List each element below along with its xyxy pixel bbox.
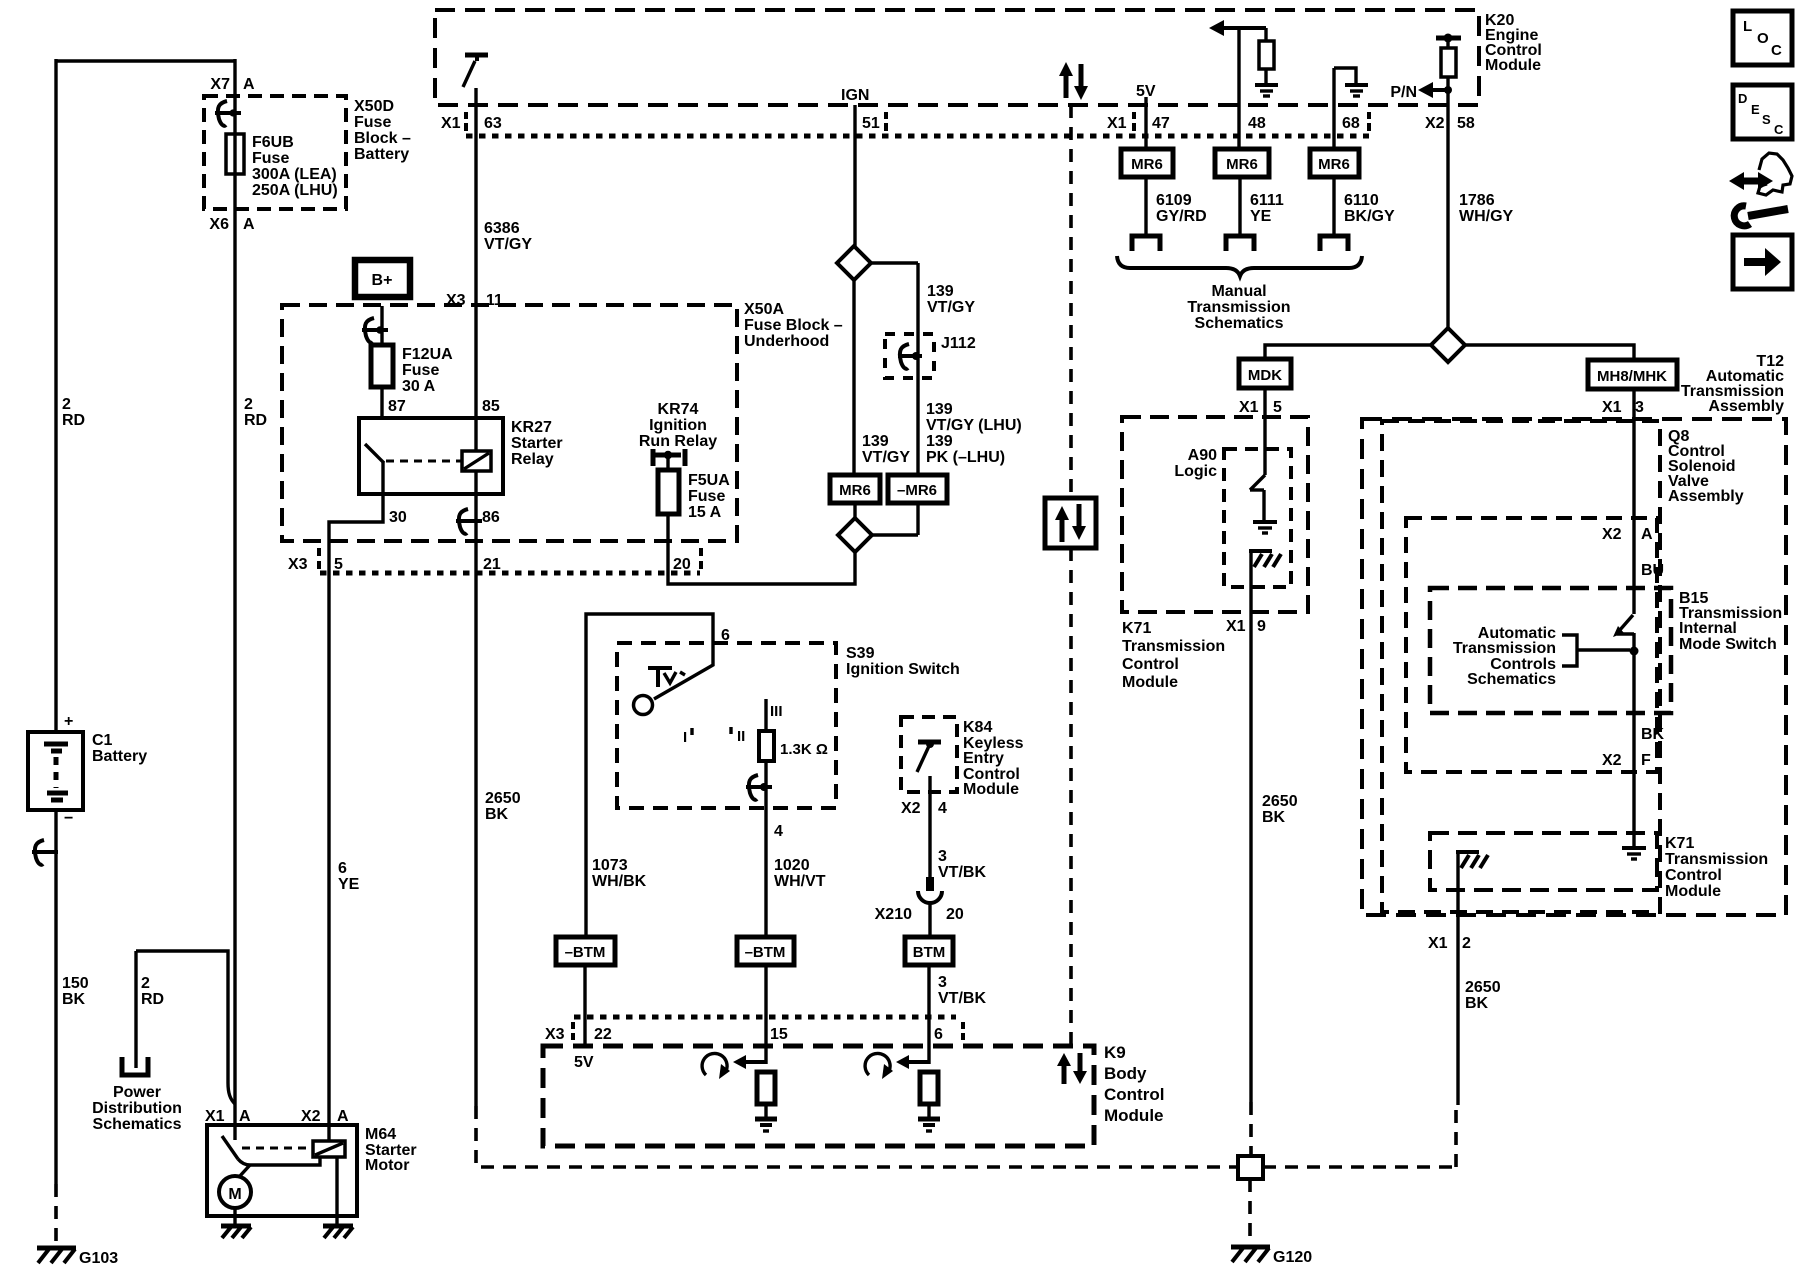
ground below motor bbox=[221, 1226, 251, 1238]
svg-text:Ignition: Ignition bbox=[649, 417, 707, 434]
svg-text:O: O bbox=[1757, 30, 1769, 47]
wire B15 to ground bbox=[1630, 633, 1639, 847]
node X6 A bbox=[209, 216, 255, 233]
svg-text:–BTM: –BTM bbox=[745, 944, 786, 961]
wire solenoid to ground bbox=[335, 1157, 338, 1224]
svg-text:Control: Control bbox=[1122, 656, 1179, 673]
wire 2 RD branch to power distribution bbox=[136, 951, 235, 1104]
switch B15 transmission internal mode switch box bbox=[1430, 588, 1782, 713]
wire F12UA to relay pin 87 bbox=[380, 386, 383, 418]
svg-text:Fuse Block –: Fuse Block – bbox=[744, 317, 843, 334]
svg-text:E: E bbox=[1751, 102, 1760, 117]
assembly Q8 control solenoid valve box bbox=[1382, 421, 1744, 912]
inner connector box X2 bbox=[1406, 518, 1657, 772]
wire 139 VT/GY left branch bbox=[852, 280, 855, 475]
svg-text:A90: A90 bbox=[1188, 447, 1217, 464]
B+ terminal box bbox=[355, 260, 410, 297]
ground inside A90 bbox=[1253, 522, 1277, 533]
dashed ground path right of splice bbox=[1263, 1105, 1456, 1167]
svg-text:Underhood: Underhood bbox=[744, 333, 829, 350]
terminal box -BTM middle bbox=[737, 937, 794, 965]
connector X3 row of X50A bbox=[288, 548, 701, 573]
node X1 5 of MDK bbox=[1239, 399, 1282, 416]
data link arrows box bbox=[1045, 498, 1096, 548]
svg-text:VT/GY: VT/GY bbox=[862, 449, 910, 466]
dashed actuator link in M64 bbox=[242, 1147, 313, 1150]
svg-text:Entry: Entry bbox=[963, 750, 1004, 767]
svg-text:VT/BK: VT/BK bbox=[938, 990, 986, 1007]
wire 150 BK dashed continuation to G103 bbox=[54, 1184, 58, 1246]
label power distribution schematics bbox=[92, 1084, 182, 1133]
terminal box -MR6 bbox=[888, 475, 947, 503]
node 68 bbox=[1342, 112, 1369, 132]
clip in X50D bbox=[215, 101, 241, 126]
svg-text:J112: J112 bbox=[941, 335, 976, 352]
svg-text:48: 48 bbox=[1248, 115, 1266, 132]
dashed wire 2650 BK to splice square bbox=[1249, 1102, 1253, 1156]
svg-text:–MR6: –MR6 bbox=[897, 482, 937, 499]
svg-text:X1: X1 bbox=[205, 1108, 225, 1125]
svg-text:M: M bbox=[228, 1186, 241, 1203]
svg-text:5: 5 bbox=[1273, 399, 1282, 416]
wire label 2650 BK left bbox=[485, 790, 521, 823]
module K9 body control module box bbox=[543, 1043, 1164, 1146]
svg-text:Module: Module bbox=[1665, 883, 1721, 900]
splice junction square at G120 bbox=[1238, 1156, 1263, 1179]
clip under 1.3K resistor bbox=[746, 775, 772, 800]
svg-text:MR6: MR6 bbox=[1131, 156, 1163, 173]
node X2 58 bbox=[1425, 115, 1475, 132]
svg-text:1786: 1786 bbox=[1459, 192, 1495, 209]
connector stub power distribution bbox=[122, 1057, 148, 1075]
svg-text:X2: X2 bbox=[301, 1108, 321, 1125]
svg-text:58: 58 bbox=[1457, 115, 1475, 132]
ground and resistor inside K20 at pin 68 bbox=[1334, 68, 1368, 96]
switch lever B15 bbox=[1613, 615, 1634, 637]
svg-text:Assembly: Assembly bbox=[1668, 488, 1744, 505]
svg-text:X1: X1 bbox=[1226, 618, 1246, 635]
terminal box MR6 bbox=[830, 475, 880, 503]
svg-text:K71: K71 bbox=[1122, 620, 1151, 637]
module K20 engine control module box bbox=[435, 10, 1542, 105]
node X1 2 bbox=[1428, 935, 1471, 952]
module K84 keyless entry control module box bbox=[901, 717, 1024, 798]
relay KR27 box bbox=[359, 418, 563, 494]
svg-text:139: 139 bbox=[927, 283, 954, 300]
svg-text:139: 139 bbox=[926, 401, 953, 418]
relay KR27 dashed actuator link bbox=[386, 460, 462, 463]
svg-text:K9: K9 bbox=[1104, 1043, 1126, 1062]
svg-text:68: 68 bbox=[1342, 115, 1360, 132]
ground below solenoid bbox=[323, 1226, 353, 1238]
terminal box -BTM left bbox=[556, 937, 615, 965]
svg-text:1020: 1020 bbox=[774, 857, 810, 874]
svg-text:P/N: P/N bbox=[1390, 84, 1417, 101]
node pin 4 of S39 bbox=[774, 823, 783, 840]
switch contact in M64 bbox=[222, 1136, 320, 1165]
svg-text:Run Relay: Run Relay bbox=[639, 433, 717, 450]
splice diamond upper bbox=[837, 246, 871, 280]
svg-text:C: C bbox=[1774, 122, 1784, 137]
svg-text:X3: X3 bbox=[288, 556, 308, 573]
svg-text:MR6: MR6 bbox=[1318, 156, 1350, 173]
svg-text:6: 6 bbox=[934, 1026, 943, 1043]
svg-text:3: 3 bbox=[1635, 399, 1644, 416]
switch S39 ignition switch box bbox=[617, 643, 960, 808]
node pin 6 of S39 bbox=[721, 627, 730, 644]
svg-text:2: 2 bbox=[62, 396, 71, 413]
svg-text:6111: 6111 bbox=[1250, 192, 1284, 209]
svg-text:MR6: MR6 bbox=[839, 482, 871, 499]
motor M64 starter motor box bbox=[207, 1125, 417, 1216]
wire label 1073 WH/BK bbox=[592, 857, 647, 890]
svg-text:C: C bbox=[1771, 42, 1782, 59]
pin 30 bbox=[389, 509, 407, 526]
svg-text:III: III bbox=[770, 703, 783, 720]
svg-text:6109: 6109 bbox=[1156, 192, 1192, 209]
node X1 9 bbox=[1226, 618, 1266, 635]
svg-text:MR6: MR6 bbox=[1226, 156, 1258, 173]
wire 6 YE relay pin 30 to starter bbox=[329, 494, 383, 1141]
relay KR27 contact lever bbox=[365, 444, 384, 494]
svg-text:VT/GY: VT/GY bbox=[927, 299, 975, 316]
wire diamond to MDK bbox=[1265, 345, 1431, 359]
wire IGN pin 51 down bbox=[853, 105, 856, 246]
svg-text:A: A bbox=[239, 1108, 251, 1125]
svg-text:Transmission: Transmission bbox=[1187, 299, 1290, 316]
svg-text:BK: BK bbox=[485, 806, 509, 823]
svg-text:M64: M64 bbox=[365, 1126, 396, 1143]
svg-text:Module: Module bbox=[1122, 674, 1178, 691]
terminal box MR6 col2 bbox=[1215, 149, 1269, 177]
svg-text:2: 2 bbox=[244, 396, 253, 413]
battery C1 bbox=[28, 713, 147, 827]
svg-text:BTM: BTM bbox=[913, 944, 946, 961]
wire F5UA pin 20 to splice diamond bbox=[668, 514, 855, 584]
svg-text:BK: BK bbox=[1465, 995, 1489, 1012]
svg-text:11: 11 bbox=[486, 292, 503, 309]
svg-text:X2: X2 bbox=[1602, 526, 1622, 543]
svg-text:2650: 2650 bbox=[485, 790, 521, 807]
svg-text:D: D bbox=[1738, 91, 1747, 106]
svg-text:KR74: KR74 bbox=[658, 401, 699, 418]
terminal box MDK bbox=[1239, 359, 1291, 388]
svg-text:X1: X1 bbox=[441, 115, 461, 132]
svg-text:X2: X2 bbox=[1602, 752, 1622, 769]
wire K20 pin 48 bbox=[1237, 28, 1240, 149]
wire 3 VT/BK from K84 bbox=[928, 776, 931, 878]
svg-text:6: 6 bbox=[721, 627, 730, 644]
terminal box MR6 col3 bbox=[1310, 149, 1359, 177]
svg-text:1073: 1073 bbox=[592, 857, 628, 874]
node X7 A bbox=[210, 76, 255, 93]
svg-text:VT/BK: VT/BK bbox=[938, 864, 986, 881]
key symbol in S39 bbox=[648, 666, 685, 687]
fuse block X50A box bbox=[282, 301, 843, 541]
dashed wire splice to G120 bbox=[1248, 1179, 1252, 1246]
switch S39 contact circle bbox=[634, 696, 653, 715]
svg-text:3: 3 bbox=[938, 848, 947, 865]
switch inside K84 bbox=[917, 740, 941, 772]
wire label BK bbox=[1641, 726, 1665, 743]
svg-text:Module: Module bbox=[1485, 57, 1541, 74]
svg-text:85: 85 bbox=[482, 398, 500, 415]
svg-text:A: A bbox=[337, 1108, 349, 1125]
fuse F12UA bbox=[371, 345, 453, 395]
svg-text:Starter: Starter bbox=[511, 435, 563, 452]
svg-text:VT/GY: VT/GY bbox=[484, 236, 532, 253]
connector J112 bbox=[885, 334, 976, 378]
svg-text:X2: X2 bbox=[901, 800, 921, 817]
svg-text:1.3K Ω: 1.3K Ω bbox=[780, 741, 828, 758]
svg-text:X1: X1 bbox=[1428, 935, 1448, 952]
node X1 3 of MH8/MHK bbox=[1602, 399, 1644, 416]
svg-text:Transmission: Transmission bbox=[1122, 638, 1225, 655]
connector stub col3 bbox=[1320, 236, 1348, 251]
pin 86 bbox=[482, 509, 500, 526]
fuse F6UB bbox=[226, 134, 338, 199]
node 5V K20 pin 47 bbox=[1136, 83, 1156, 149]
clip at pin 86 bbox=[456, 509, 482, 534]
wire 1020 WH/VT from S39 pin 4 bbox=[764, 761, 767, 937]
svg-text:X3: X3 bbox=[446, 292, 466, 309]
svg-text:20: 20 bbox=[946, 906, 964, 923]
module K71 transmission control module box right bbox=[1430, 833, 1768, 900]
data link arrows in BCM bbox=[1057, 1053, 1087, 1084]
svg-text:63: 63 bbox=[484, 115, 502, 132]
pullup resistor at BCM pin 6 bbox=[865, 1053, 940, 1131]
svg-text:Control: Control bbox=[1104, 1085, 1164, 1104]
svg-text:F: F bbox=[1641, 752, 1651, 769]
wire 2 RD main feed to starter bbox=[233, 59, 236, 1140]
ground G103 bbox=[37, 1248, 118, 1267]
terminal box BTM right bbox=[905, 937, 953, 965]
svg-text:S39: S39 bbox=[846, 645, 875, 662]
connector dotted line BCM X3 bbox=[574, 1015, 956, 1020]
svg-text:Battery: Battery bbox=[354, 146, 409, 163]
clip on battery negative wire bbox=[32, 840, 58, 865]
svg-text:S: S bbox=[1762, 112, 1771, 127]
svg-text:+: + bbox=[64, 713, 73, 730]
svg-text:K84: K84 bbox=[963, 719, 992, 736]
svg-text:Transmission: Transmission bbox=[1453, 640, 1556, 657]
wire label 6386 VT/GY bbox=[484, 220, 532, 253]
svg-text:2650: 2650 bbox=[1262, 793, 1298, 810]
logic block A90 box bbox=[1174, 447, 1291, 587]
wire label 139 VT/GY (LHU) 139 PK (-LHU) bbox=[926, 401, 1022, 466]
wire label 2 RD (left) bbox=[62, 396, 85, 429]
svg-text:F6UB: F6UB bbox=[252, 134, 294, 151]
wire label 6 YE bbox=[338, 860, 360, 893]
svg-text:87: 87 bbox=[388, 398, 406, 415]
svg-text:15 A: 15 A bbox=[688, 504, 722, 521]
svg-text:X50D: X50D bbox=[354, 98, 394, 115]
svg-text:K71: K71 bbox=[1665, 835, 1694, 852]
svg-text:6110: 6110 bbox=[1344, 192, 1379, 209]
svg-text:47: 47 bbox=[1152, 115, 1170, 132]
svg-text:Schematics: Schematics bbox=[1467, 671, 1556, 688]
node X1 A / X2 A of M64 bbox=[205, 1108, 349, 1125]
ground inside K71 right bbox=[1622, 848, 1646, 859]
svg-text:MDK: MDK bbox=[1248, 367, 1282, 384]
wire label 1020 WH/VT bbox=[774, 857, 826, 890]
wire -BTM left to BCM pin 22 bbox=[583, 965, 586, 1046]
svg-text:Schematics: Schematics bbox=[1195, 315, 1284, 332]
svg-text:Body: Body bbox=[1104, 1064, 1147, 1083]
svg-text:RD: RD bbox=[244, 412, 267, 429]
svg-text:A: A bbox=[243, 76, 255, 93]
motor circle M bbox=[219, 1165, 251, 1208]
icon box LOC bbox=[1733, 11, 1792, 65]
svg-text:X3: X3 bbox=[545, 1026, 565, 1043]
svg-text:5: 5 bbox=[334, 556, 343, 573]
wire 1073 path and lock cylinder outline bbox=[586, 614, 713, 937]
module T12 box bbox=[1362, 419, 1786, 915]
position marks I II III bbox=[683, 703, 783, 746]
svg-text:F12UA: F12UA bbox=[402, 346, 453, 363]
wire BTM right to BCM pin 6 bbox=[927, 965, 930, 1064]
svg-text:Manual: Manual bbox=[1211, 283, 1266, 300]
wire label 139 VT/GY upper bbox=[927, 283, 975, 316]
svg-text:PK (–LHU): PK (–LHU) bbox=[926, 449, 1005, 466]
connector stub col1 bbox=[1132, 236, 1160, 251]
svg-text:Ignition Switch: Ignition Switch bbox=[846, 661, 960, 678]
module K71 transmission control module box left bbox=[1122, 417, 1308, 691]
pin 85 bbox=[482, 398, 500, 415]
node X1 47 bbox=[1107, 112, 1170, 132]
svg-text:RD: RD bbox=[141, 991, 164, 1008]
wire label 2 RD (right) bbox=[244, 396, 267, 429]
case ground inside A90 bbox=[1249, 551, 1281, 617]
connector dotted line K20 X1 bbox=[466, 134, 1369, 139]
svg-text:−: − bbox=[64, 810, 73, 827]
svg-text:Power: Power bbox=[113, 1084, 161, 1101]
svg-text:20: 20 bbox=[673, 556, 691, 573]
ground G120 bbox=[1231, 1247, 1312, 1266]
svg-text:RD: RD bbox=[62, 412, 85, 429]
svg-text:30: 30 bbox=[389, 509, 407, 526]
svg-text:L: L bbox=[1743, 18, 1752, 35]
svg-text:300A (LEA): 300A (LEA) bbox=[252, 166, 337, 183]
splice diamond right bbox=[1431, 328, 1465, 362]
svg-text:X1: X1 bbox=[1107, 115, 1127, 132]
svg-text:X1: X1 bbox=[1602, 399, 1622, 416]
svg-text:2: 2 bbox=[1462, 935, 1471, 952]
wire label 2 RD stub bbox=[141, 975, 164, 1008]
solenoid coil in M64 bbox=[313, 1141, 345, 1157]
data link arrows at K20 boundary bbox=[1059, 62, 1088, 100]
svg-text:X2: X2 bbox=[1425, 115, 1445, 132]
svg-text:BK: BK bbox=[62, 991, 86, 1008]
arrow and resistor inside K20 at pin 48 bbox=[1209, 20, 1278, 96]
svg-text:MH8/MHK: MH8/MHK bbox=[1597, 368, 1667, 385]
svg-text:B+: B+ bbox=[372, 272, 393, 289]
wire 2650 BK from A90 to splice bbox=[1251, 617, 1298, 1102]
svg-text:6386: 6386 bbox=[484, 220, 520, 237]
wire label BU bbox=[1641, 562, 1664, 579]
svg-text:X6: X6 bbox=[209, 216, 229, 233]
clip in X50A at F12UA bbox=[362, 318, 388, 343]
node IGN pin 51 bbox=[841, 87, 886, 132]
svg-text:YE: YE bbox=[1250, 208, 1272, 225]
svg-text:YE: YE bbox=[338, 876, 360, 893]
node X2 A bbox=[1602, 526, 1653, 543]
wire -BTM middle to BCM pin 15 bbox=[764, 965, 767, 1064]
svg-text:Schematics: Schematics bbox=[93, 1116, 182, 1133]
dashed data link wire lower bbox=[1069, 548, 1073, 1044]
svg-text:WH/BK: WH/BK bbox=[592, 873, 647, 890]
wire 2650 BK dashed ground path to G120 bbox=[476, 1106, 1236, 1167]
node X2 F bbox=[1602, 752, 1651, 769]
wire 6110 BK/GY bbox=[1334, 177, 1395, 236]
svg-text:Transmission: Transmission bbox=[1665, 851, 1768, 868]
svg-text:F5UA: F5UA bbox=[688, 472, 730, 489]
resistor 1.3K in S39 bbox=[759, 699, 828, 761]
svg-text:X7: X7 bbox=[210, 76, 230, 93]
svg-text:Fuse: Fuse bbox=[402, 362, 439, 379]
svg-text:Motor: Motor bbox=[365, 1157, 409, 1174]
pin 87 bbox=[388, 398, 406, 415]
svg-text:–BTM: –BTM bbox=[565, 944, 606, 961]
wire label 3 VT/BK lower bbox=[938, 974, 986, 1007]
terminal box MH8/MHK bbox=[1588, 360, 1677, 389]
wire motor to ground bbox=[233, 1208, 236, 1224]
svg-text:G120: G120 bbox=[1273, 1249, 1312, 1266]
icon directions arrows and wrench bbox=[1729, 153, 1792, 226]
brace manual transmission schematics bbox=[1117, 256, 1362, 332]
pullup resistor at BCM pin 15 bbox=[702, 1053, 777, 1131]
svg-text:BK: BK bbox=[1641, 726, 1665, 743]
node X3 22 15 6 bbox=[545, 1022, 963, 1043]
wire relay pin 86 down bbox=[474, 494, 477, 1106]
svg-text:2650: 2650 bbox=[1465, 979, 1501, 996]
wire 6386 VT/GY from K20 pin 63 bbox=[474, 88, 477, 418]
splice diamond lower bbox=[838, 503, 918, 552]
svg-text:2: 2 bbox=[141, 975, 150, 992]
svg-text:Block –: Block – bbox=[354, 130, 411, 147]
svg-text:139: 139 bbox=[926, 433, 953, 450]
svg-text:Fuse: Fuse bbox=[252, 150, 289, 167]
svg-text:86: 86 bbox=[482, 509, 500, 526]
svg-text:VT/GY (LHU): VT/GY (LHU) bbox=[926, 417, 1022, 434]
case ground inside K71 right lower bbox=[1456, 852, 1488, 1105]
svg-text:250A (LHU): 250A (LHU) bbox=[252, 182, 338, 199]
svg-text:150: 150 bbox=[62, 975, 89, 992]
svg-text:A: A bbox=[1641, 526, 1653, 543]
wire MH8/MHK through B15 bbox=[1632, 389, 1635, 614]
icon box DESC bbox=[1733, 85, 1792, 139]
svg-text:WH/VT: WH/VT bbox=[774, 873, 826, 890]
wire label 2650 BK right bbox=[1465, 979, 1501, 1012]
svg-text:Control: Control bbox=[1665, 867, 1722, 884]
svg-text:Mode Switch: Mode Switch bbox=[1679, 636, 1777, 653]
wire 150 BK battery negative branch bbox=[54, 59, 57, 1184]
svg-text:GY/RD: GY/RD bbox=[1156, 208, 1207, 225]
node X2 4 of K84 bbox=[901, 800, 947, 817]
svg-text:BK/GY: BK/GY bbox=[1344, 208, 1395, 225]
svg-text:9: 9 bbox=[1257, 618, 1266, 635]
svg-text:I: I bbox=[683, 729, 687, 746]
svg-text:BU: BU bbox=[1641, 562, 1664, 579]
connector dotted line X3 bbox=[320, 571, 700, 576]
svg-text:30 A: 30 A bbox=[402, 378, 436, 395]
svg-text:Battery: Battery bbox=[92, 748, 147, 765]
svg-text:G103: G103 bbox=[79, 1250, 118, 1267]
wire label 139 VT/GY lower bbox=[862, 433, 910, 466]
wire diamond to MH8/MHK bbox=[1465, 345, 1634, 360]
wire B+ to fuse F12UA bbox=[380, 306, 383, 346]
svg-text:51: 51 bbox=[862, 115, 880, 132]
